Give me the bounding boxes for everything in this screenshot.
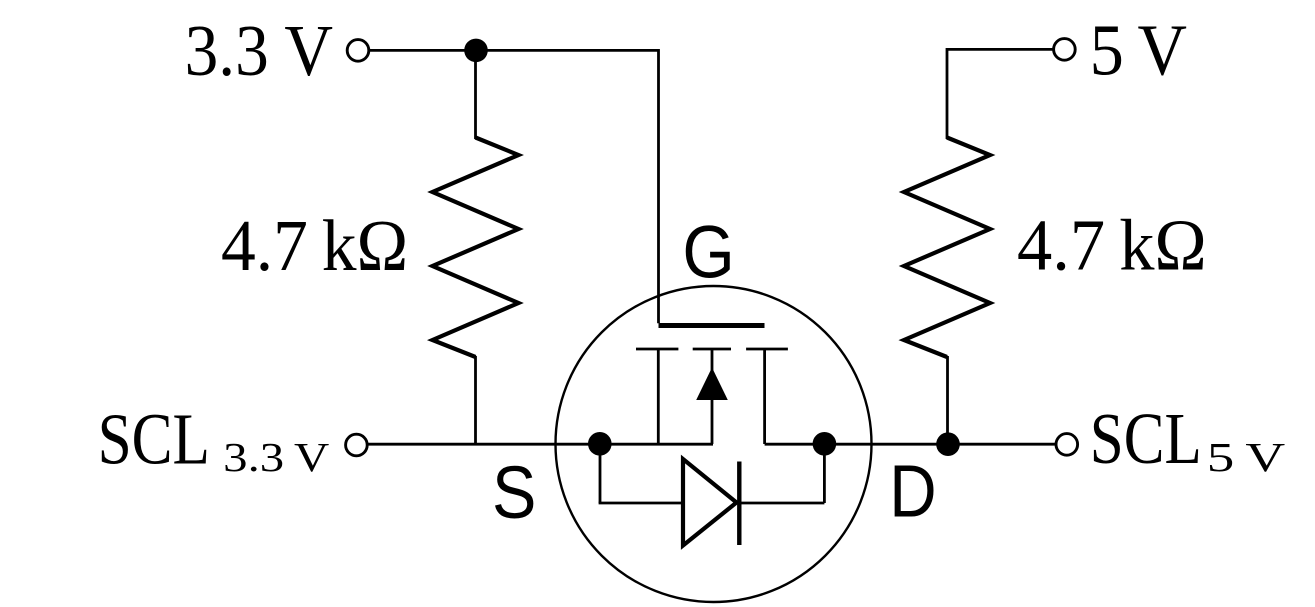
channel cap right: [746, 348, 788, 351]
svg-text:G: G: [682, 210, 734, 293]
wire 5V terminal to corner: [947, 48, 1054, 51]
channel cap middle: [693, 348, 731, 351]
svg-text:5 V: 5 V: [1207, 434, 1286, 480]
svg-text:3.3 V: 3.3 V: [185, 10, 333, 91]
stem body contact: [711, 349, 714, 444]
svg-text:5 V: 5 V: [1090, 10, 1187, 91]
svg-text:4.7 kΩ: 4.7 kΩ: [1017, 204, 1207, 285]
svg-text:SCL: SCL: [1090, 398, 1202, 479]
svg-text:3.3 V: 3.3 V: [223, 434, 329, 480]
wire diode cathode horizontal: [739, 502, 824, 505]
body arrow: [696, 368, 728, 401]
resistor R2 4.7k zigzag: [904, 138, 990, 358]
resistor R1 4.7k zigzag: [433, 138, 519, 358]
terminal 3.3V: [347, 40, 369, 62]
stem drain contact: [763, 349, 766, 444]
wire diode up to D dot: [823, 444, 826, 503]
node D dot: [813, 432, 837, 456]
wire SCL3.3 terminal to source: [368, 443, 713, 446]
node S dot: [588, 432, 612, 456]
node junction 3.3V/R1: [464, 39, 488, 63]
wire corner down to R2: [946, 48, 949, 139]
wire S dot down to diode: [599, 444, 602, 503]
wire R1 bottom to SCL3.3 line: [474, 356, 477, 444]
terminal SCL5: [1056, 434, 1078, 456]
transistor Q1 body circle: [556, 286, 872, 602]
svg-text:4.7 kΩ: 4.7 kΩ: [221, 205, 408, 286]
stem source contact: [657, 349, 660, 444]
wire diode anode horizontal: [599, 502, 681, 505]
gate bar: [659, 323, 765, 328]
channel cap left: [636, 348, 678, 351]
wire junction down to R1: [474, 50, 477, 139]
body diode triangle: [683, 459, 737, 546]
wire 3.3V terminal to junction: [369, 49, 476, 52]
body diode cathode bar: [737, 462, 741, 546]
wire gate lead vertical: [657, 49, 660, 323]
wire junction to gate corner: [476, 49, 659, 52]
terminal 5V: [1054, 39, 1076, 61]
svg-text:D: D: [889, 450, 936, 533]
svg-text:S: S: [492, 451, 536, 534]
wire R2 bottom to junction: [946, 356, 949, 444]
svg-text:SCL: SCL: [98, 399, 210, 480]
terminal SCL3.3: [346, 434, 368, 456]
node junction R2/SCL5: [936, 432, 960, 456]
wire drain to SCL5 terminal: [765, 443, 1056, 446]
